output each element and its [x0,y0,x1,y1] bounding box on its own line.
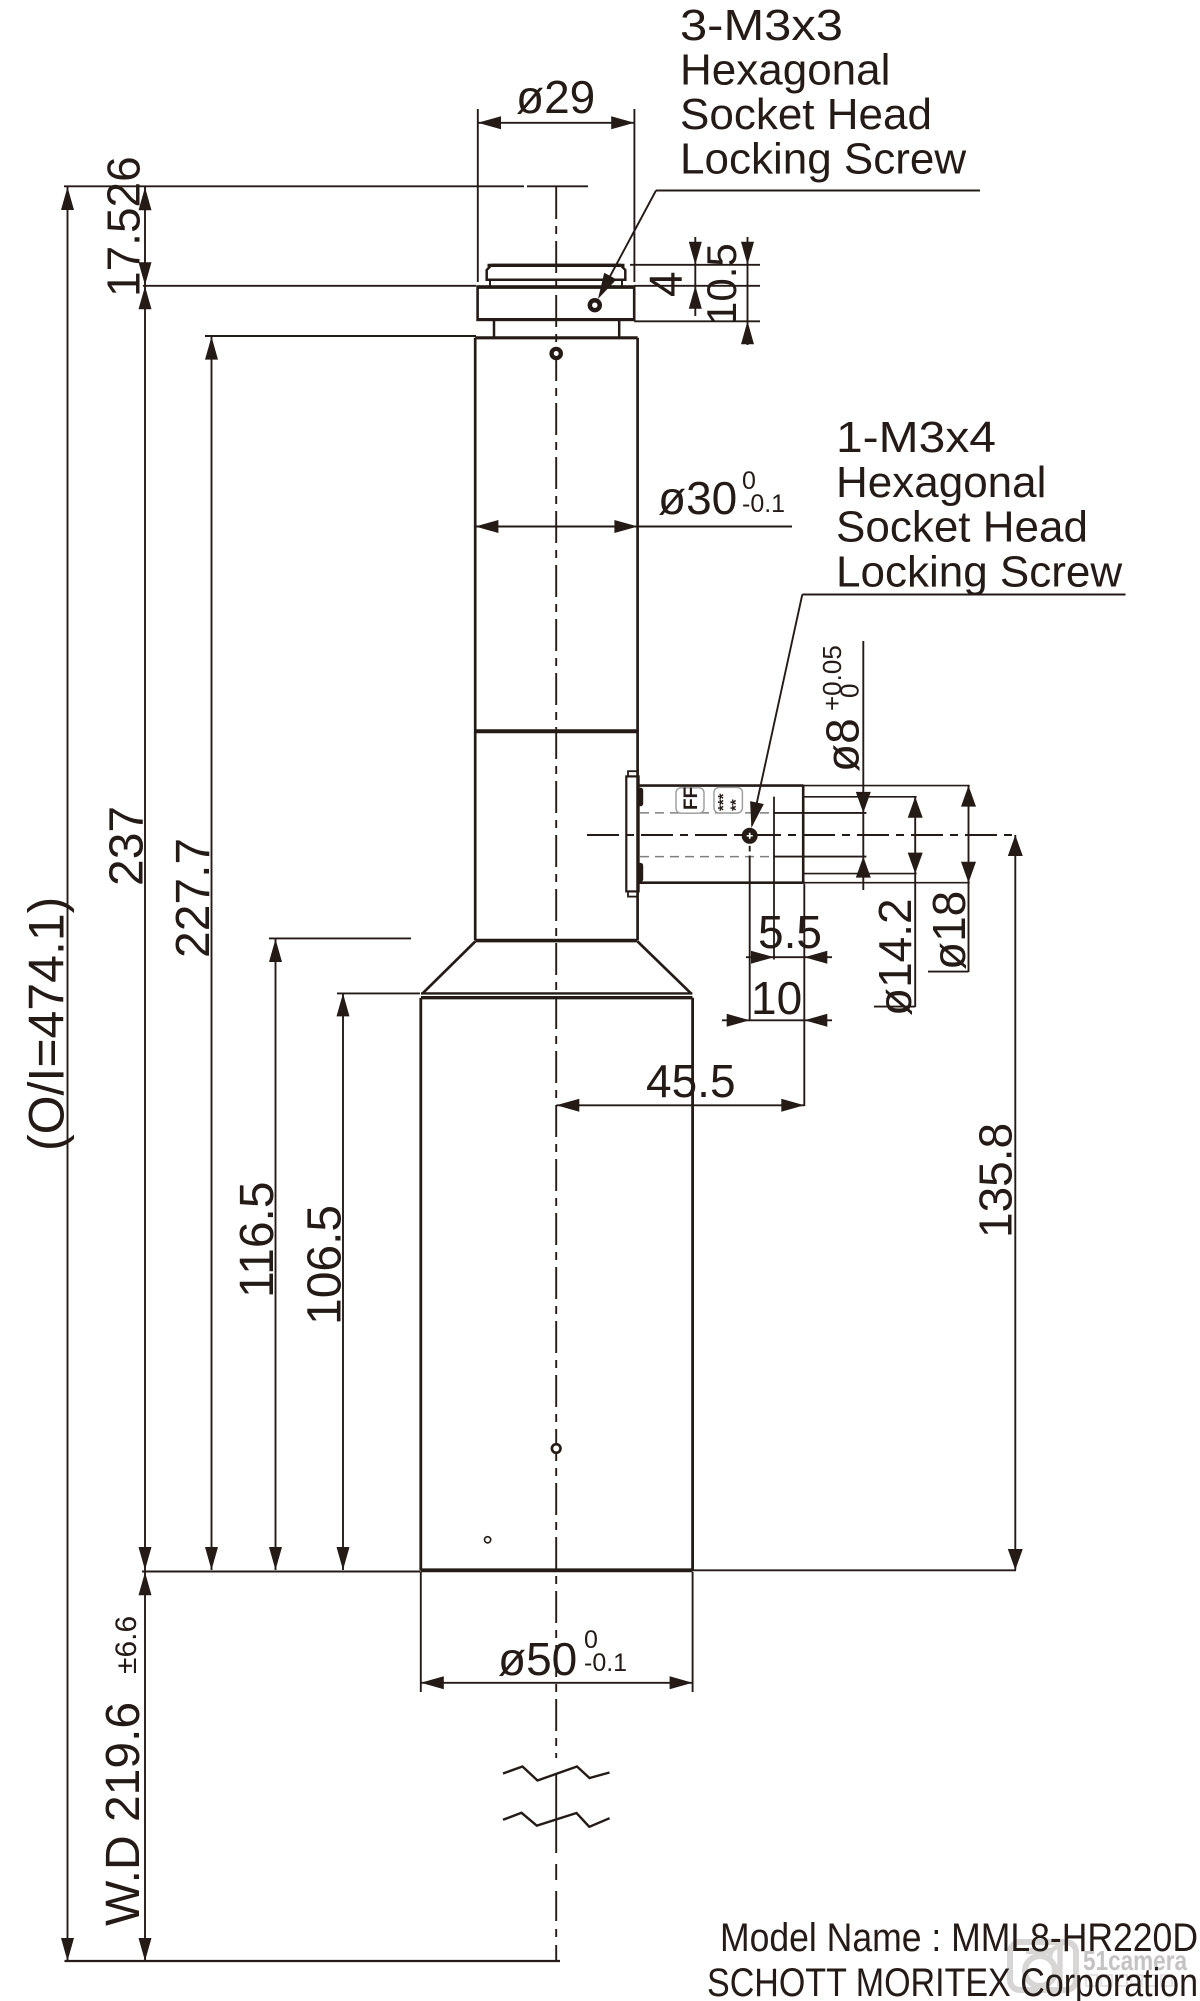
svg-text:Hexagonal: Hexagonal [836,458,1046,507]
dimension 135.8 [970,835,1023,1570]
svg-text:5.5: 5.5 [758,906,822,958]
dimension 106.5 [299,993,421,1570]
svg-text:17.526: 17.526 [98,156,150,297]
port flange [626,771,638,896]
cylinder seam line [475,729,637,733]
svg-text:237: 237 [101,806,154,886]
top reference line 17.526 upper [64,185,588,187]
bottom face extension line [142,1570,1016,1571]
dimension phi8 [817,641,871,890]
dimension 5.5 [746,906,832,964]
svg-text:W.D 219.6: W.D 219.6 [97,1702,150,1926]
top cap plate [487,265,626,280]
dimension phi30 [475,467,792,533]
phi50 cylinder [421,998,693,1571]
svg-text:SCHOTT MORITEX Corporation: SCHOTT MORITEX Corporation [707,1961,1198,2001]
svg-text:116.5: 116.5 [231,1181,284,1298]
phi30 cylinder [475,338,637,941]
dimension phi50 [421,1572,693,1692]
svg-text:106.5: 106.5 [299,1205,352,1325]
dimension 237 [101,286,154,1570]
svg-text:±6.6: ±6.6 [110,1616,143,1674]
svg-text:45.5: 45.5 [646,1055,736,1107]
center dot on phi50 [552,1444,561,1453]
svg-text:FF: FF [681,787,702,810]
dimension phi29 [478,71,635,282]
cylinder top screw dot [549,347,563,361]
svg-text:10: 10 [751,972,802,1024]
port bore solid lines [773,813,866,857]
port bore hidden lines [640,813,773,857]
port bore end wall [773,797,775,960]
model name text [707,1916,1198,2001]
svg-text:Locking Screw: Locking Screw [680,135,966,184]
centerline vertical [555,187,557,1961]
dimension 10.5 [634,237,760,345]
svg-text:Socket Head: Socket Head [836,503,1088,552]
svg-text:(O/I=474.1): (O/I=474.1) [19,897,75,1151]
cone bottom double line [421,993,692,997]
svg-text:3-M3x3: 3-M3x3 [680,1,843,50]
dimension phi18 [923,786,976,972]
asterisk label box [714,787,745,813]
dimension 45.5 [556,1055,804,1112]
note 3-M3x3 text [680,1,966,184]
svg-text:ø50: ø50 [498,1633,577,1685]
svg-text:ø18: ø18 [923,891,975,970]
mounting face reference line [143,285,760,287]
svg-text:135.8: 135.8 [970,1123,1022,1238]
dimension phi14.2 [869,797,923,1016]
port centerline [587,834,1018,836]
watermark 51camera [1010,1942,1187,1990]
neck [494,321,619,338]
leader 1-M3x4 [750,595,1125,829]
svg-text:Model Name : MML8-HR220D: Model Name : MML8-HR220D [720,1916,1198,1960]
svg-text:ø29: ø29 [516,71,595,123]
svg-text:227.7: 227.7 [167,838,220,958]
cone flare [423,941,691,994]
svg-text:ø8: ø8 [817,718,869,772]
cap main block [478,287,635,320]
svg-text:Locking Screw: Locking Screw [836,547,1122,596]
dimension 227.7 [167,336,476,1570]
dimension O/I=474.1 [19,187,75,1961]
svg-text:10.5: 10.5 [698,243,745,325]
svg-text:ø30: ø30 [658,472,737,524]
svg-text:1-M3x4: 1-M3x4 [836,413,996,462]
dimension 116.5 [231,938,411,1570]
floor reference line [65,1960,561,1962]
port right extension lines [803,786,970,1106]
svg-text:-0.1: -0.1 [742,490,785,518]
break symbol lower [503,1813,610,1827]
port o-ring tabs [637,788,643,882]
svg-text:+0.05: +0.05 [817,645,847,711]
cap screw dot [588,298,602,312]
svg-text:Hexagonal: Hexagonal [680,46,890,95]
port screw dot [742,828,758,844]
svg-text:4: 4 [640,271,692,297]
cap step ring [490,280,622,287]
svg-text:-0.1: -0.1 [584,1649,627,1677]
leader 3-M3x3 [598,191,980,300]
port screw center extension [749,846,751,1021]
dimension 10 [722,972,832,1027]
dimension 17.526 [98,156,152,1961]
svg-text:0: 0 [835,684,865,698]
small circle on phi50 [485,1537,491,1543]
port body [639,785,804,884]
note 1-M3x4 text [836,413,1122,596]
FF label box [676,787,704,813]
svg-text:**: ** [728,799,745,811]
svg-text:Socket Head: Socket Head [680,90,932,139]
dimension W.D 219.6 [97,1572,152,1961]
break symbol upper [503,1767,610,1781]
dimension 4 [630,237,760,316]
svg-text:ø14.2: ø14.2 [869,898,921,1016]
